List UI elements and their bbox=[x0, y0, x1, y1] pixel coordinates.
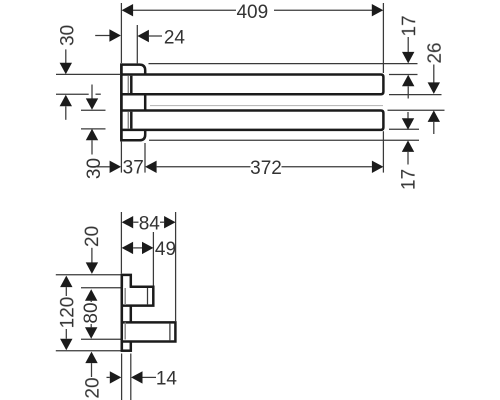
extension lines, bottom view bbox=[120, 212, 122, 274]
svg-text:409: 409 bbox=[236, 2, 268, 23]
plate redraw (side) bbox=[121, 275, 124, 351]
svg-text:49: 49 bbox=[155, 239, 176, 260]
extension lines, top view bbox=[120, 3, 122, 63]
dimension 37 / 372 bbox=[97, 166, 110, 168]
svg-text:24: 24 bbox=[164, 27, 186, 48]
dimension 30 (bottom, bar2 height) bbox=[91, 85, 93, 99]
svg-text:120: 120 bbox=[57, 297, 78, 329]
svg-text:80: 80 bbox=[81, 302, 102, 323]
dimension 17 (bottom right) bbox=[407, 112, 409, 118]
bar 2 pivot joint line bbox=[130, 112, 133, 129]
svg-text:20: 20 bbox=[82, 377, 103, 398]
wall plate (side) bbox=[122, 275, 131, 351]
dimension 120 bbox=[60, 276, 72, 288]
svg-text:17: 17 bbox=[398, 169, 419, 190]
svg-text:17: 17 bbox=[399, 15, 420, 36]
dimension 14 bbox=[107, 376, 110, 378]
svg-text:30: 30 bbox=[57, 25, 78, 46]
bar 2 pivot axis (gray) bbox=[127, 112, 129, 129]
svg-text:30: 30 bbox=[84, 158, 105, 179]
svg-text:14: 14 bbox=[156, 368, 178, 389]
bar 1 (upper arm) bbox=[121, 75, 383, 95]
dimension 20 (bottom) bbox=[85, 352, 97, 364]
wall plate (front view, rounded right corners) bbox=[121, 65, 145, 141]
dimension 49 bbox=[122, 242, 134, 254]
bar 1 pivot joint line bbox=[130, 76, 133, 93]
arm 1 (short, side) bbox=[122, 287, 154, 306]
svg-text:26: 26 bbox=[425, 42, 446, 63]
svg-text:84: 84 bbox=[139, 213, 161, 234]
arm 2 (long, side) bbox=[122, 322, 176, 341]
dimension 84 bbox=[122, 216, 134, 228]
svg-text:20: 20 bbox=[82, 226, 103, 247]
pivot pin (gray) segments bbox=[124, 288, 126, 305]
dimension 24 bbox=[95, 35, 109, 37]
plate left edge redraw bbox=[120, 63, 123, 141]
svg-text:372: 372 bbox=[250, 158, 282, 179]
faint hidden line between bars bbox=[150, 105, 383, 107]
dimension 409 bbox=[123, 9, 236, 11]
bar 1 pivot axis (gray) bbox=[127, 76, 129, 93]
bar 2 (lower arm) bbox=[121, 111, 383, 130]
svg-text:37: 37 bbox=[123, 157, 144, 178]
dimension 80 bbox=[85, 289, 97, 301]
